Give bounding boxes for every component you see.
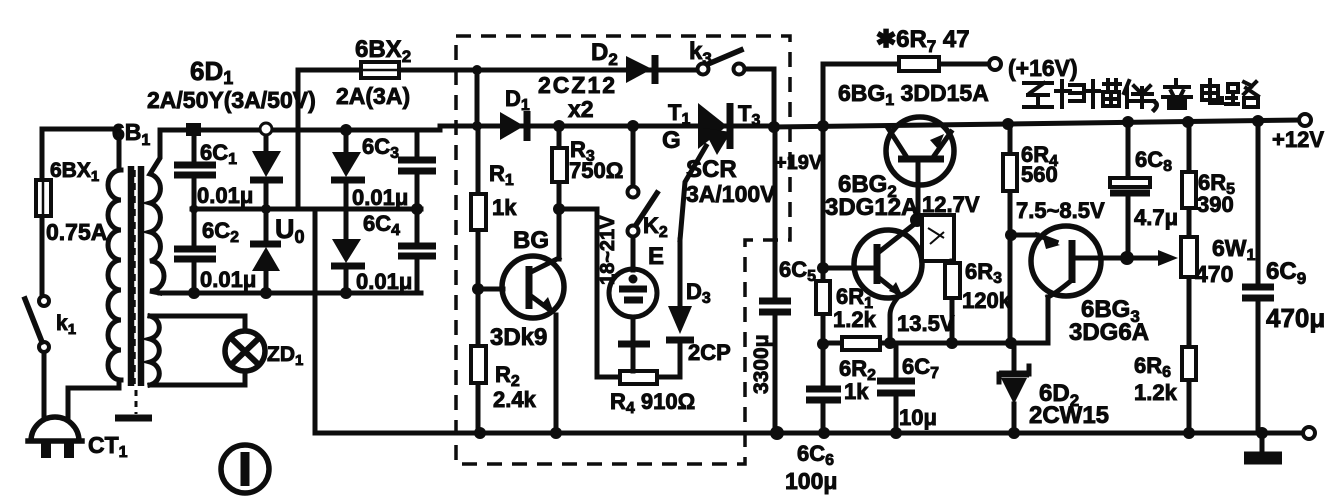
svg-text:390: 390 [1197,192,1234,217]
svg-text:100μ: 100μ [785,468,837,494]
svg-text:2CW15: 2CW15 [1029,402,1109,429]
svg-text:0.01μ: 0.01μ [356,269,412,294]
svg-text:7.5~8.5V: 7.5~8.5V [1016,198,1105,223]
svg-text:3300μ: 3300μ [750,334,773,394]
svg-text:1k: 1k [492,195,517,220]
svg-text:3DG6A: 3DG6A [1069,319,1149,346]
svg-text:G: G [662,127,681,154]
svg-text:(+16V): (+16V) [1008,55,1078,81]
svg-text:0.01μ: 0.01μ [200,267,256,292]
svg-text:12.7V: 12.7V [922,192,980,217]
svg-text:470: 470 [1195,261,1233,287]
svg-text:0.01μ: 0.01μ [197,183,253,208]
svg-text:6BG1 3DD15A: 6BG1 3DD15A [838,80,989,109]
svg-text:R4 910Ω: R4 910Ω [610,389,695,417]
svg-text:750Ω: 750Ω [569,158,623,183]
svg-text:120k: 120k [962,288,1012,313]
svg-text:3Dk9: 3Dk9 [490,324,547,351]
svg-text:4.7μ: 4.7μ [1134,205,1178,230]
svg-text:1k: 1k [844,379,869,404]
svg-text:1.2k: 1.2k [833,307,877,332]
svg-text:BG: BG [513,227,549,254]
svg-text:2A(3A): 2A(3A) [336,83,410,109]
svg-text:18~21V: 18~21V [597,215,619,285]
svg-text:+19V: +19V [775,152,823,174]
svg-text:✱6R7 47: ✱6R7 47 [876,26,970,56]
svg-text:2CZ12: 2CZ12 [538,72,617,98]
svg-text:13.5V: 13.5V [897,311,955,336]
svg-text:2A/50Y(3A/50V): 2A/50Y(3A/50V) [147,87,316,113]
svg-text:3DG12A: 3DG12A [825,194,918,221]
svg-text:x2: x2 [568,96,594,122]
svg-text:SCR: SCR [686,156,737,183]
svg-text:10μ: 10μ [899,405,937,430]
svg-text:3A/100V: 3A/100V [686,181,776,207]
svg-text:0.75A: 0.75A [46,219,107,245]
svg-text:0.01μ: 0.01μ [352,185,408,210]
svg-text:E: E [648,243,664,270]
svg-text:470μ: 470μ [1266,303,1325,333]
svg-text:560: 560 [1021,162,1058,187]
svg-text:2.4k: 2.4k [493,387,537,412]
svg-text:2CP: 2CP [688,340,731,365]
svg-text:+12V: +12V [1272,127,1324,152]
svg-text:1.2k: 1.2k [1134,380,1178,405]
